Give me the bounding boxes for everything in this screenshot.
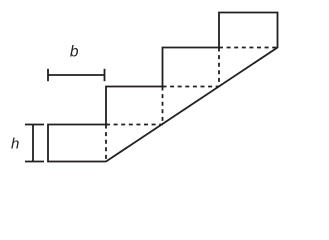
svg-text:b: b <box>70 44 79 61</box>
svg-text:h: h <box>11 136 19 153</box>
